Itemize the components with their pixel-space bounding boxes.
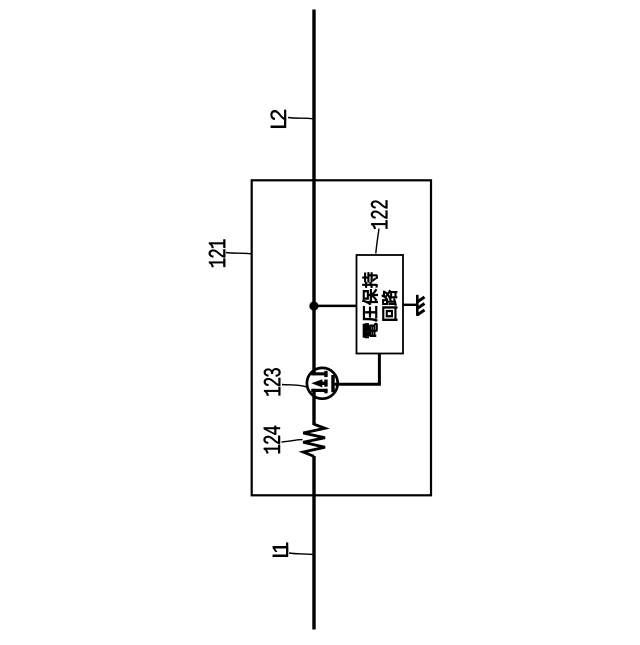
wire junction to box 122: [314, 305, 357, 308]
box 121 outer block: [252, 180, 431, 495]
label 電圧保持回路 in box 122: [362, 273, 397, 338]
node junction dot: [309, 301, 318, 310]
label 123: [264, 368, 281, 395]
label L1: [273, 547, 288, 557]
leader line 121: [226, 253, 252, 255]
label L2: [271, 118, 286, 128]
wire main line L1 bottom segment: [312, 456, 315, 630]
box 122 voltage holding circuit: [357, 255, 404, 354]
resistor 124 zigzag: [303, 424, 325, 456]
wire box 122 to ground: [403, 304, 417, 306]
label 122: [371, 200, 387, 228]
wire main line between transistor 123 and resistor 124: [312, 389, 315, 425]
leader line 122: [376, 229, 379, 254]
leader line 124: [282, 440, 303, 442]
transistor 123 MOSFET in circle: [307, 368, 338, 399]
leader line L1: [289, 553, 313, 555]
label 121: [209, 239, 225, 267]
wire gate of 123 to box 122: [335, 354, 380, 385]
leader line 123: [282, 385, 307, 387]
leader line L2: [288, 118, 313, 119]
wire main line L2 top segment: [312, 10, 315, 376]
ground symbol: [417, 295, 425, 316]
label 124: [264, 426, 280, 453]
